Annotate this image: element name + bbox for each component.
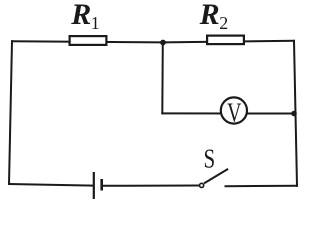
svg-text:V: V (227, 99, 241, 129)
svg-text:1: 1 (91, 13, 100, 33)
svg-text:S: S (203, 144, 215, 174)
svg-text:R: R (199, 0, 220, 31)
svg-text:R: R (70, 0, 91, 31)
svg-text:2: 2 (219, 13, 228, 33)
